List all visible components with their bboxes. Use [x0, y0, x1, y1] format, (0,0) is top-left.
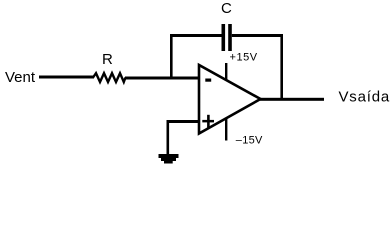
capacitor C right plate — [228, 24, 232, 51]
power pin +15V — [225, 63, 227, 80]
op-amp inverting input marker (-) — [205, 79, 211, 82]
svg-text:R: R — [102, 51, 113, 68]
op-amp U1 — [199, 65, 261, 134]
wire ground drop — [167, 120, 170, 155]
svg-text:–15V: –15V — [236, 135, 263, 147]
ground — [159, 154, 179, 164]
op-amp non-inverting input marker (+) — [202, 115, 214, 128]
svg-text:Vsaída: Vsaída — [339, 89, 391, 106]
wire non-inverting input — [167, 120, 200, 123]
wire output — [260, 98, 324, 101]
svg-text:+15V: +15V — [230, 52, 258, 64]
wire feedback top right segment — [232, 34, 283, 37]
wire input (Vent to resistor) — [39, 76, 94, 79]
power pin -15V — [225, 119, 227, 141]
resistor R — [93, 73, 126, 82]
wire feedback right vertical — [280, 34, 283, 100]
svg-text:C: C — [221, 0, 232, 17]
wire resistor to inverting input — [125, 77, 200, 80]
capacitor C left plate — [222, 24, 226, 51]
wire feedback left vertical — [170, 34, 173, 78]
wire feedback top left segment — [170, 34, 222, 37]
svg-text:Vent: Vent — [5, 69, 36, 86]
